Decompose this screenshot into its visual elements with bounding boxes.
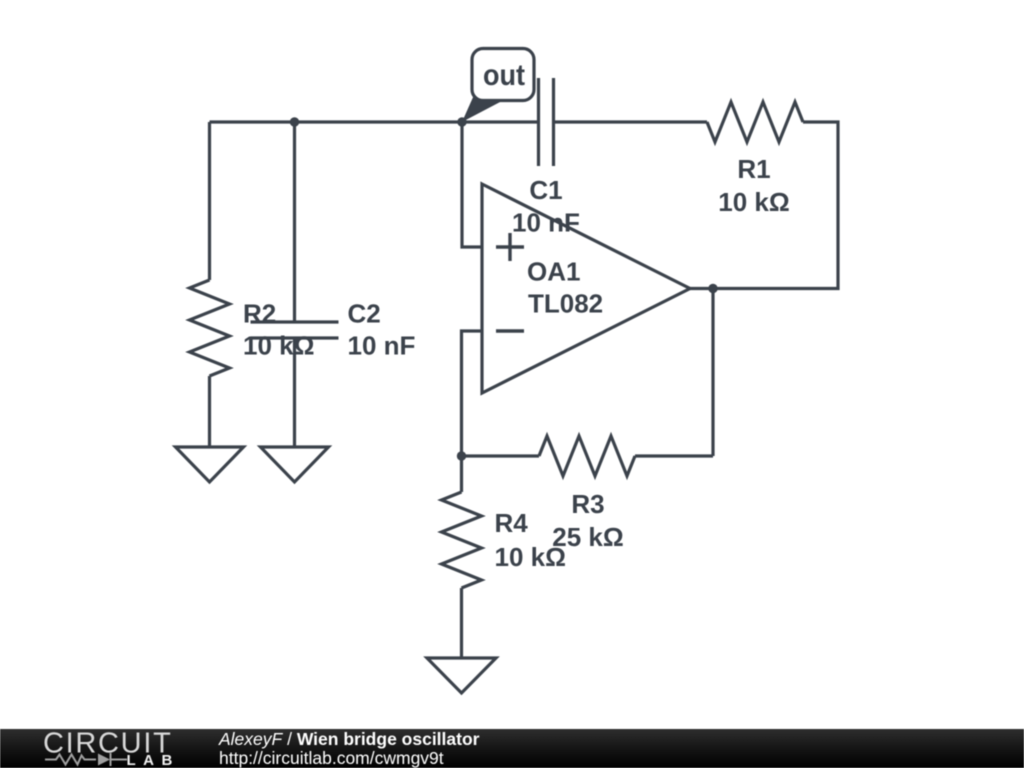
node A junction dot (out) [457,117,466,126]
svg-text:LAB: LAB [127,752,180,768]
ground under R2 [176,447,244,482]
wire feedback vertical from output node down to R3 rail [711,289,714,457]
svg-text:R3: R3 [571,489,604,519]
resistor R1 [707,102,803,142]
wire R4 to ground [460,588,463,658]
ground under R4 [427,658,496,693]
wire left branch down to R2 [208,122,211,280]
out flag pointer wedge [462,95,502,122]
resistor R2 [190,280,230,376]
out flag box [472,49,534,101]
node junction dot at op-amp output [708,284,717,293]
resistor R3 [539,436,635,476]
wire non-inverting input from node A [462,122,482,247]
wire C2 bottom to ground [293,338,296,447]
svg-text:10 nF: 10 nF [348,331,416,361]
op-amp minus input symbol [496,329,524,332]
wire C1 right plate to R1 [554,120,708,123]
wire R1 to right corner, down to output rail [690,122,838,289]
svg-text:OA1: OA1 [527,257,580,287]
node B junction dot (inverting input / R3 / R4) [457,451,466,460]
wire R3 right lead [635,454,713,457]
svg-text:TL082: TL082 [528,289,603,319]
wire C2 branch vertical top [293,122,296,322]
svg-text:10 nF: 10 nF [512,208,580,238]
svg-text:AlexeyF / Wien bridge oscillat: AlexeyF / Wien bridge oscillator [218,729,480,749]
wire top rail left: node A to C1 left plate [210,120,539,123]
svg-text:out: out [483,59,525,92]
svg-text:10 kΩ: 10 kΩ [718,187,789,217]
footer bar [0,729,1024,768]
svg-text:C1: C1 [529,175,562,205]
wire R2 to ground [208,376,211,447]
node junction dot top of C2 [290,117,299,126]
svg-text:C2: C2 [348,299,381,329]
svg-text:http://circuitlab.com/cwmgv9t: http://circuitlab.com/cwmgv9t [219,748,444,768]
op-amp plus input symbol [496,233,524,261]
capacitor C1 [539,78,554,166]
op-amp OA1 triangle [482,184,690,393]
svg-text:R1: R1 [737,154,770,184]
wire inverting input: vertical + horizontal into op-amp [462,331,483,456]
wire node B down to R4 [460,456,463,492]
wire R3 left lead to node B [462,454,540,457]
ground under C2 [261,447,329,482]
svg-text:R2: R2 [243,299,276,329]
svg-text:10 kΩ: 10 kΩ [243,331,314,361]
svg-text:R4: R4 [495,508,529,538]
capacitor C2 [251,322,339,338]
resistor R4 [442,492,482,588]
svg-text:10 kΩ: 10 kΩ [495,542,566,572]
CircuitLab logo resistor-diode glyph [45,753,127,766]
